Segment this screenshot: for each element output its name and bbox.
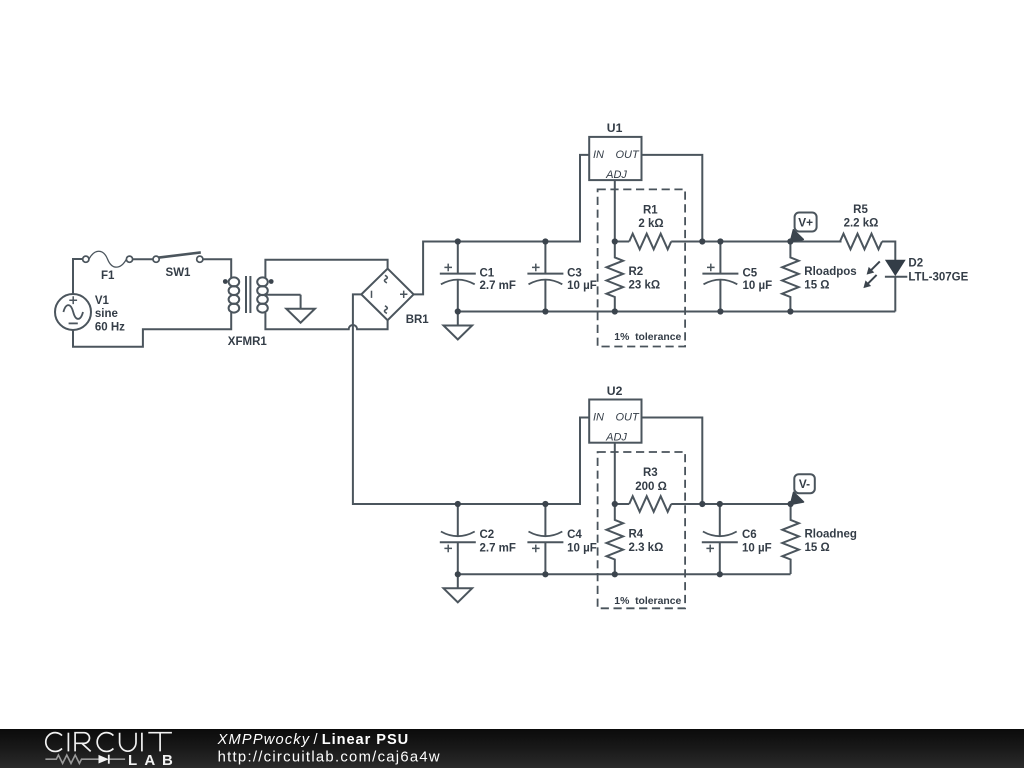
svg-text:R4: R4: [629, 529, 644, 541]
R1 labels: [638, 205, 663, 231]
svg-text:F1: F1: [101, 270, 115, 282]
lower output rail right of R3: [671, 503, 790, 505]
svg-text:2.2 kΩ: 2.2 kΩ: [844, 218, 879, 230]
C3 labels: [567, 268, 597, 293]
ground at transformer tap: [286, 295, 315, 323]
svg-text:R1: R1: [643, 205, 658, 217]
junction U2 ADJ node: [612, 501, 618, 507]
wire secondary top to bridge: [265, 260, 387, 278]
ground below C1: [444, 312, 473, 340]
junction node V-: [788, 501, 794, 507]
wire R5 to D2: [882, 242, 895, 261]
wire SW1 to transformer primary: [203, 259, 231, 277]
output rail right of R1: [671, 241, 841, 243]
wire D2 cathode down to ground rail: [894, 277, 896, 312]
svg-text:R2: R2: [629, 266, 644, 278]
lower 1% tolerance dashed box: [598, 452, 686, 608]
wire secondary bottom to bridge with hop: [265, 313, 387, 330]
svg-text:C6: C6: [742, 529, 757, 541]
svg-text:1% tolerance: 1% tolerance: [614, 332, 681, 343]
svg-text:D2: D2: [908, 258, 923, 270]
svg-text:U1: U1: [607, 121, 623, 135]
C2 labels: [480, 529, 516, 555]
ground below C2: [444, 574, 473, 602]
svg-text:L: L: [128, 752, 137, 768]
junction C4 top: [542, 501, 548, 507]
C5 labels: [743, 268, 773, 293]
C4 labels: [567, 529, 597, 555]
transformer core: [246, 276, 250, 313]
resistor R2: [607, 242, 624, 312]
svg-text:XMPPwocky: XMPPwocky: [217, 732, 311, 748]
bridge rectifier BR1: [361, 269, 413, 321]
junction C5 bottom: [717, 308, 723, 314]
svg-text:2.7 mF: 2.7 mF: [480, 543, 516, 555]
switch SW1: [153, 252, 203, 262]
capacitor C4: [527, 504, 563, 574]
wire bridge right output to top rail: [414, 155, 590, 295]
C1 labels: [480, 268, 516, 293]
svg-text:C4: C4: [567, 529, 582, 541]
wire bridge left output down to lower section: [353, 294, 589, 504]
svg-text:LTL-307GE: LTL-307GE: [908, 272, 968, 284]
junction C4 bottom: [542, 571, 548, 577]
junction C3 top: [542, 238, 548, 244]
svg-text:U2: U2: [607, 384, 623, 398]
junction R4 bottom: [612, 571, 618, 577]
resistor Rloadneg: [782, 504, 799, 574]
svg-text:15 Ω: 15 Ω: [805, 542, 830, 554]
regulator U2: [589, 400, 641, 444]
svg-text:R3: R3: [643, 467, 658, 479]
junction C6 top: [717, 501, 723, 507]
svg-text:C1: C1: [480, 268, 495, 280]
svg-text:C2: C2: [480, 529, 495, 541]
svg-text:V-: V-: [799, 477, 810, 491]
wire F1 to SW1: [133, 258, 153, 260]
regulator U1: [589, 137, 641, 181]
svg-text:R5: R5: [853, 204, 868, 216]
transformer XFMR1 secondary coil: [257, 277, 268, 312]
junction C1 bottom: [455, 308, 461, 314]
svg-text:2 kΩ: 2 kΩ: [638, 218, 663, 230]
svg-text:10 µF: 10 µF: [743, 280, 773, 292]
svg-text:10 µF: 10 µF: [567, 543, 597, 555]
resistor Rloadpos: [782, 242, 799, 312]
svg-text:15 Ω: 15 Ω: [804, 280, 829, 292]
junction node V+: [787, 238, 793, 244]
capacitor C3: [527, 242, 563, 312]
svg-text:Linear PSU: Linear PSU: [322, 732, 409, 748]
voltage source V1: [55, 294, 91, 330]
capacitor C1: [440, 242, 476, 312]
wire U2 ADJ down: [614, 443, 616, 504]
lower ground rail: [458, 573, 791, 575]
svg-text:BR1: BR1: [406, 314, 430, 326]
R3 labels: [635, 467, 667, 493]
logo resistor symbol: [45, 755, 125, 763]
svg-text:V+: V+: [798, 215, 813, 229]
svg-text:23 kΩ: 23 kΩ: [629, 280, 661, 292]
LED D2: [863, 260, 907, 288]
wire secondary center tap: [265, 294, 300, 296]
svg-text:XFMR1: XFMR1: [228, 336, 268, 348]
C6 labels: [742, 529, 772, 555]
junction C1 top: [455, 238, 461, 244]
primary polarity dot: [223, 279, 228, 284]
svg-text:A: A: [144, 752, 155, 768]
node V+ flag: [790, 213, 816, 242]
svg-text:200 Ω: 200 Ω: [635, 481, 667, 493]
svg-text:http://circuitlab.com/caj6a4w: http://circuitlab.com/caj6a4w: [218, 749, 440, 765]
footer bar: [0, 729, 1024, 768]
junction C5 top: [717, 238, 723, 244]
wire primary bottom to V1 bottom: [73, 313, 231, 347]
transformer XFMR1 primary coil: [229, 277, 240, 312]
upper 1% tolerance dashed box: [598, 189, 686, 346]
svg-text:V1: V1: [95, 295, 110, 307]
svg-text:C3: C3: [567, 268, 582, 280]
svg-text:sine: sine: [95, 308, 118, 320]
R2 labels: [629, 266, 661, 291]
svg-text:Rloadneg: Rloadneg: [805, 529, 857, 541]
fuse F1: [83, 251, 133, 267]
junction C2 top: [455, 501, 461, 507]
resistor R5: [840, 234, 882, 250]
wire U2 OUT down to output rail: [642, 418, 703, 505]
Rloadpos labels: [804, 266, 856, 291]
wire U1 ADJ down: [614, 180, 616, 241]
junction U1 ADJ node: [612, 238, 618, 244]
Rloadneg labels: [805, 529, 857, 554]
wire U1 OUT down to output rail: [642, 155, 703, 242]
R4 labels: [629, 529, 664, 554]
svg-text:SW1: SW1: [166, 267, 192, 279]
svg-text:Rloadpos: Rloadpos: [804, 266, 856, 278]
logo diode symbol: [99, 755, 109, 764]
CircuitLab logo CIRCUIT: [46, 733, 172, 752]
node V- flag: [791, 474, 815, 504]
wire V1 top to F1: [73, 259, 86, 294]
resistor R1: [615, 241, 629, 243]
junction U2 OUT node: [699, 501, 705, 507]
svg-text:10 µF: 10 µF: [742, 543, 772, 555]
upper ground rail: [458, 311, 896, 313]
R5 labels: [844, 204, 879, 230]
capacitor C5: [702, 242, 738, 312]
svg-text:60 Hz: 60 Hz: [95, 321, 125, 333]
junction C2 bottom: [455, 571, 461, 577]
svg-text:10 µF: 10 µF: [567, 280, 597, 292]
junction Rloadpos bottom: [787, 308, 793, 314]
resistor R4: [607, 504, 624, 574]
capacitor C2: [440, 504, 476, 574]
junction C6 bottom: [717, 571, 723, 577]
capacitor C6: [702, 504, 738, 574]
svg-text:1% tolerance: 1% tolerance: [614, 596, 681, 607]
svg-text:C5: C5: [743, 268, 758, 280]
resistor R3: [615, 503, 629, 505]
junction C3 bottom: [542, 308, 548, 314]
V1 value labels: [95, 295, 125, 334]
svg-text:B: B: [162, 752, 173, 768]
junction U1 OUT node: [699, 238, 705, 244]
junction R2 bottom: [612, 308, 618, 314]
svg-text:2.3 kΩ: 2.3 kΩ: [629, 542, 664, 554]
svg-text:2.7 mF: 2.7 mF: [480, 280, 516, 292]
secondary polarity dot: [269, 279, 274, 284]
D2 labels: [908, 258, 968, 284]
